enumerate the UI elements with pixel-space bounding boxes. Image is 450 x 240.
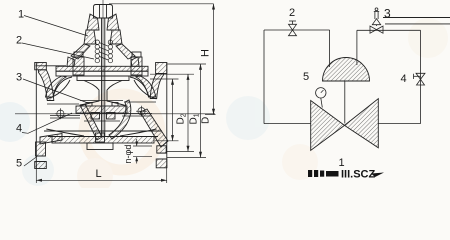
- svg-text:2: 2: [16, 35, 22, 47]
- stem guide bottom: [96, 133, 105, 142]
- body upper-right wall: [136, 76, 156, 97]
- main valve right triangle: [345, 99, 379, 148]
- main valve left triangle: [311, 101, 345, 151]
- flange bolt left: [74, 52, 83, 57]
- bonnet skirt right: [116, 44, 135, 59]
- n-phi-d dimension: [133, 139, 152, 164]
- svg-text:H: H: [200, 49, 212, 57]
- left bore walls: [46, 80, 70, 99]
- svg-text:4: 4: [16, 123, 22, 135]
- left flange face line: [35, 63, 37, 169]
- right flange hub: [150, 74, 163, 99]
- actuator stem: [344, 81, 346, 123]
- plug disc: [76, 106, 127, 113]
- chamber rim left: [67, 57, 75, 66]
- faint watermark blobs: [0, 18, 448, 194]
- left flange bottom rim: [36, 142, 46, 156]
- diaphragm chamber flange plates: [56, 66, 148, 71]
- callout leader 3: [23, 79, 88, 103]
- svg-text:1: 1: [339, 157, 345, 169]
- callout leader 2: [22, 43, 94, 59]
- bore top line right: [124, 101, 156, 103]
- right flange face line: [166, 63, 168, 169]
- H dimension line: [205, 4, 216, 115]
- riser from top-left line to dome: [329, 30, 331, 67]
- D1 dimension line: [150, 74, 194, 151]
- left flange hub: [39, 70, 54, 101]
- svg-text:D: D: [201, 117, 212, 124]
- svg-text:5: 5: [16, 158, 22, 170]
- svg-text:3: 3: [16, 72, 22, 84]
- svg-text:1: 1: [18, 9, 24, 21]
- bottom cover center step: [87, 143, 113, 150]
- left flange top rim: [35, 63, 47, 70]
- body roof curve right: [130, 77, 149, 97]
- callout leader 5: [24, 157, 37, 167]
- valve 2: [289, 21, 297, 36]
- actuator dome: [323, 57, 370, 81]
- body joint seam right: [122, 113, 152, 115]
- flange bolt right: [132, 52, 141, 57]
- chamber rim right: [131, 57, 139, 66]
- seat blocks: [91, 113, 100, 120]
- body roof curve left: [53, 77, 72, 97]
- body joint bolt left: [55, 108, 66, 119]
- horizontal pipe centerline: [15, 113, 215, 115]
- L dimension line: [36, 165, 166, 183]
- locknut hatched wedges: [87, 14, 99, 30]
- svg-text:III.SCZ: III.SCZ: [341, 169, 376, 181]
- svg-text:n-φd: n-φd: [123, 145, 133, 164]
- svg-text:L: L: [96, 168, 102, 180]
- valve 3: [370, 8, 383, 33]
- bore top line left: [47, 103, 79, 105]
- bottom wall wedge left: [40, 134, 62, 145]
- valve stem: [101, 18, 103, 136]
- body lower-left partition wall: [80, 104, 102, 140]
- svg-text:5: 5: [303, 71, 309, 83]
- gauge: [316, 88, 326, 98]
- valve 3 line: [357, 29, 421, 31]
- bottom cover flange lines: [44, 130, 162, 132]
- valve 4: [414, 73, 426, 85]
- seat chamber top line: [80, 100, 123, 102]
- connect line left: [264, 123, 311, 125]
- adjusting bolt hex head: [94, 5, 113, 19]
- svg-text:4: 4: [401, 73, 407, 85]
- D dimension line: [167, 64, 206, 158]
- svg-text:3: 3: [384, 7, 391, 21]
- spring coils: [95, 40, 113, 63]
- body joint seam left: [50, 115, 80, 117]
- seat chamber bottom line: [84, 120, 120, 122]
- connect line right: [378, 123, 420, 125]
- chamber underside line: [36, 65, 66, 67]
- inner passage wall under seat: [109, 100, 131, 139]
- right flange top rim: [156, 63, 167, 74]
- right bore walls: [134, 80, 157, 99]
- body lower-right diagonal wall: [140, 109, 168, 147]
- dark watermark logo: [308, 169, 384, 181]
- D2 dimension line: [150, 79, 179, 141]
- top extension line: [109, 3, 214, 5]
- pilot supply double lines: [383, 17, 450, 19]
- loop top-left horizontal: [264, 29, 330, 31]
- bonnet neck walls: [84, 30, 96, 44]
- riser from valve3 line to dome: [356, 30, 358, 65]
- body upper-left wall: [46, 76, 67, 97]
- bonnet skirt left: [71, 44, 90, 59]
- right flange bottom rim: [157, 146, 166, 153]
- bottom cover hatched band: [52, 137, 154, 144]
- loop right vertical: [420, 30, 422, 123]
- spool curves: [79, 81, 99, 107]
- loop left vertical: [263, 30, 265, 124]
- svg-text:2: 2: [289, 7, 295, 19]
- vertical centerline of valve: [102, 0, 104, 137]
- body joint bolt right: [136, 106, 147, 117]
- callout leader 1: [24, 16, 88, 37]
- callout leader 4: [22, 113, 72, 133]
- diaphragm disc: [77, 76, 129, 81]
